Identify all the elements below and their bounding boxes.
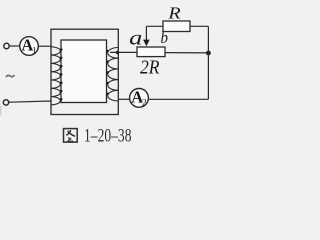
junction dot right [206, 51, 211, 56]
ammeter A2 [130, 88, 149, 109]
svg-text:1: 1 [32, 46, 37, 56]
resistor R [163, 21, 190, 32]
wire A2 to right vertical [149, 98, 209, 100]
wire J1 to A1 [9, 45, 19, 47]
primary coil junction dots [60, 48, 63, 100]
terminal J1 (upper AC input) [4, 43, 9, 48]
slider arrow [145, 26, 147, 41]
wire secondary top to potentiometer [110, 51, 137, 53]
svg-text:a: a [129, 27, 142, 50]
transformer winding outer loop [51, 29, 118, 114]
wire A1 to primary lead [38, 45, 51, 47]
caption glyph 图 [64, 129, 78, 143]
AC source tilde [6, 75, 15, 77]
terminal J2 (lower AC input) [3, 100, 8, 105]
transformer core [61, 40, 107, 103]
wire J2 to primary lead [9, 101, 52, 102]
wire secondary bottom to A2 [118, 98, 129, 100]
ammeter A1 [20, 36, 39, 57]
svg-text:2R: 2R [140, 58, 160, 79]
wire R to right vertical [190, 25, 208, 27]
scan smudge left edge [0, 106, 1, 116]
wire 2R to right junction [165, 52, 208, 54]
primary coil (7 turns) [51, 47, 60, 105]
secondary coil junction dots [106, 50, 109, 95]
svg-text:R: R [167, 4, 181, 23]
junction dot secondary tap [116, 51, 119, 54]
wire right vertical [207, 26, 209, 99]
secondary coil (5 turns) [108, 48, 119, 102]
potentiometer 2R box [137, 47, 165, 57]
wire slider corner to R [146, 25, 163, 27]
svg-text:1–20–38: 1–20–38 [84, 126, 132, 146]
svg-text:2: 2 [142, 98, 147, 108]
